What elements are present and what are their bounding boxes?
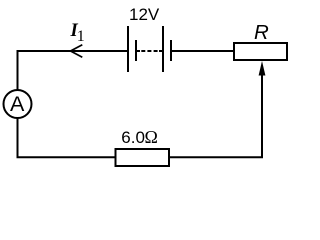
current arrow on top wire (pointing left) [71, 45, 83, 57]
battery B1: short plate 1 [135, 40, 137, 61]
battery B1: long plate 1 [127, 26, 129, 72]
resistor 6.0 ohm body [116, 149, 170, 166]
battery B1: short plate 2 [170, 40, 172, 61]
label 6.0 ohm [121, 127, 158, 147]
wire: ammeter down and bottom-left horizontal to resistor [18, 119, 115, 158]
battery B1: long plate 2 [162, 26, 164, 72]
rheostat wiper arrow (arrowhead into bottom of R) [259, 61, 266, 76]
svg-text:6.0Ω: 6.0Ω [121, 127, 158, 147]
ammeter A [4, 90, 32, 118]
svg-text:1: 1 [77, 28, 85, 45]
label I1 (current) [70, 21, 85, 45]
battery B1: dashed link (additional cells) [137, 50, 162, 52]
svg-text:A: A [10, 92, 25, 116]
svg-text:12V: 12V [129, 5, 160, 24]
wire: bottom-right, from resistor up to wiper [170, 74, 262, 157]
label R [254, 21, 269, 44]
wire: top-left horizontal and left vertical down to ammeter [18, 51, 128, 90]
svg-text:R: R [254, 21, 269, 44]
label 12 V (battery emf) [129, 5, 160, 24]
rheostat R body [234, 43, 287, 60]
wire: battery to rheostat [171, 50, 234, 52]
